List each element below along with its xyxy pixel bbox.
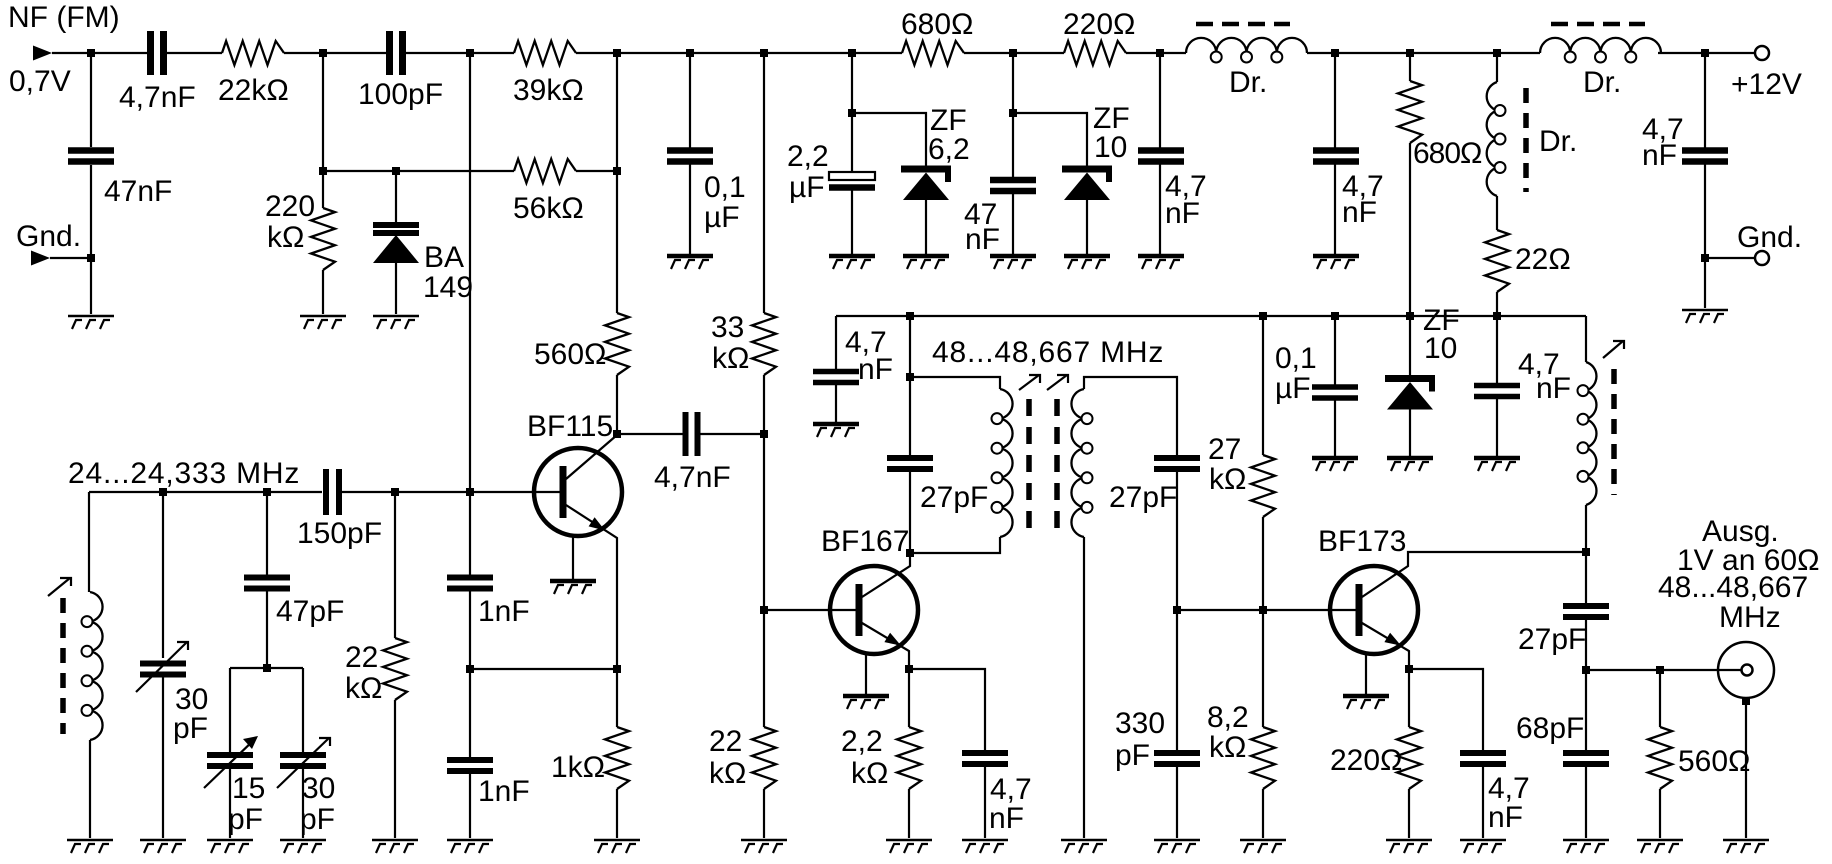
svg-text:149: 149 <box>423 271 473 304</box>
label 220Ohm emitter <box>1330 744 1402 777</box>
label 4,7nF interstage <box>654 461 731 494</box>
node Gnd terminal <box>1701 254 1709 262</box>
zener diode ZF 10 first <box>1062 169 1112 200</box>
wire secondary top link <box>1084 377 1177 458</box>
wire 680R to rail316 <box>1409 143 1411 316</box>
node trimmer bus <box>263 664 271 672</box>
capacitor 27pF primary <box>887 458 933 469</box>
node rail2 right <box>613 167 621 175</box>
label 150pF <box>297 517 382 550</box>
label 48...48,667 MHz <box>932 336 1164 369</box>
ground bypass cap <box>813 424 859 437</box>
capacitor 1nF first <box>447 578 493 589</box>
svg-text:nF: nF <box>858 353 893 386</box>
node BF167 emitter <box>905 665 913 673</box>
svg-text:680Ω: 680Ω <box>1413 137 1482 170</box>
emitter arrow BF115 <box>589 517 605 530</box>
wire 2,2k top <box>908 669 910 727</box>
label 1nF first <box>478 595 530 628</box>
svg-text:kΩ: kΩ <box>712 342 749 375</box>
wire node L to +12V terminal <box>1705 52 1755 54</box>
wire 30pF2 to ground <box>302 766 304 838</box>
label 0,7V <box>9 65 71 98</box>
wire Dr3 top lead <box>1496 53 1498 82</box>
wire 2,2uF upper lead <box>851 113 853 172</box>
node B top rail <box>466 49 474 57</box>
wire 100pF to node B <box>403 52 470 54</box>
svg-text:10: 10 <box>1094 131 1127 164</box>
resistor 56kOhm feedback <box>514 159 576 183</box>
wire 4,7nF(1160) drop <box>1159 53 1161 150</box>
label 33k value <box>711 311 744 344</box>
capacitor 4,7nF at rail <box>1474 386 1520 397</box>
resistor 22Ohm <box>1485 230 1509 292</box>
label 27k value <box>1208 433 1241 466</box>
svg-text:nF: nF <box>1488 801 1523 834</box>
node C top rail <box>613 49 621 57</box>
wire 560R out to ground <box>1659 789 1661 838</box>
wire 47pF to trimmer bus <box>266 589 268 668</box>
label 4,7 value mid <box>1165 170 1207 203</box>
svg-text:10: 10 <box>1424 332 1457 365</box>
label 0,1 right unit <box>1275 372 1311 405</box>
label 560Ohm output <box>1678 745 1750 778</box>
label BF167 <box>821 525 909 558</box>
wire 4,7nF to 22k <box>164 52 222 54</box>
ground 0,1uF <box>667 256 713 269</box>
svg-text:220Ω: 220Ω <box>1330 744 1402 777</box>
wire 8,2k top <box>1262 610 1264 727</box>
wire 22k(395) drop <box>394 492 396 638</box>
resistor 1kOhm emitter <box>605 727 629 789</box>
svg-text:Gnd.: Gnd. <box>16 220 81 253</box>
wire 4,7nF(1335) drop <box>1334 53 1336 150</box>
node base rail BF173 left <box>1173 606 1181 614</box>
resistor 22kOhm oscillator <box>383 638 407 700</box>
label NF (FM) input <box>8 1 120 34</box>
node output line left <box>1582 666 1590 674</box>
svg-text:µF: µF <box>789 171 825 204</box>
ground 68pF <box>1563 840 1609 853</box>
svg-text:Gnd.: Gnd. <box>1737 221 1802 254</box>
capacitor 4,7nF emitter BF173 <box>1460 753 1506 764</box>
wire 39k to node C <box>576 52 617 54</box>
wire 30pF to ground <box>162 675 164 838</box>
svg-text:+12V: +12V <box>1731 68 1802 101</box>
ground 2,2kOhm <box>886 840 932 853</box>
inductor transformer secondary <box>1071 389 1092 537</box>
node subrail left <box>848 109 856 117</box>
terminal Gnd input arrow <box>31 251 50 266</box>
ground 560Ohm output <box>1637 840 1683 853</box>
wire primary bottom link <box>910 537 1000 553</box>
label ZF 10 name <box>1093 102 1130 135</box>
ground BF173 case <box>1343 696 1389 709</box>
svg-text:560Ω: 560Ω <box>534 338 606 371</box>
wire node B to 39k <box>470 52 514 54</box>
wire rail316 left drop <box>835 316 837 371</box>
node D top rail <box>686 49 694 57</box>
node base rail 27k <box>1259 606 1267 614</box>
label 47 unit <box>965 223 1000 256</box>
label BF173 <box>1318 525 1406 558</box>
ground transformer secondary <box>1061 840 1107 853</box>
label Dr. choke 1 <box>1229 66 1267 99</box>
terminal Gnd right <box>1755 251 1769 265</box>
wire 560R to collector node <box>616 375 618 433</box>
ground ZF10b <box>1387 458 1433 471</box>
label 4,7 rail unit <box>1536 372 1571 405</box>
svg-text:22: 22 <box>345 641 378 674</box>
label 0,1 value <box>704 171 746 204</box>
node H top rail <box>1156 49 1164 57</box>
svg-text:2,2: 2,2 <box>841 725 883 758</box>
capacitor 0,1uF right <box>1312 387 1358 398</box>
wire 56k to node rail2 right <box>576 170 617 172</box>
ground 1kOhm <box>594 840 640 853</box>
svg-text:nF: nF <box>989 802 1024 835</box>
wire 2,2k to ground <box>908 789 910 838</box>
svg-text:kΩ: kΩ <box>1209 463 1246 496</box>
svg-text:150pF: 150pF <box>297 517 382 550</box>
label MHz out <box>1719 601 1781 634</box>
wire to BF115 base <box>470 491 563 493</box>
label 680Ohm dropper <box>1413 137 1482 170</box>
wire 30pF drop <box>162 492 164 658</box>
wire Gnd arrow to node <box>50 257 91 259</box>
terminal NF input arrow <box>33 46 52 61</box>
ground ZF6,2 <box>903 256 949 269</box>
wire node to coupling cap <box>91 52 147 54</box>
transistor Q2 BF167 <box>830 566 918 654</box>
wire 1nF to ground <box>469 771 471 838</box>
ground 8,2kOhm <box>1240 840 1286 853</box>
node RF connector shell <box>1742 697 1750 705</box>
wire trimmer bus <box>230 667 303 669</box>
wire to 1nF line <box>395 491 470 493</box>
wire 8,2k to ground <box>1262 789 1264 838</box>
svg-text:220Ω: 220Ω <box>1063 8 1135 41</box>
wire emitter to 4,7nF <box>1409 669 1483 753</box>
svg-text:22: 22 <box>709 725 742 758</box>
wire 22k osc to ground <box>394 700 396 838</box>
ground 22k osc <box>372 840 418 853</box>
varactor diode BA149 <box>373 225 419 263</box>
transformer core dashes right <box>1054 399 1060 531</box>
wire ZF10 to ground <box>1086 198 1088 254</box>
svg-text:pF: pF <box>1115 739 1150 772</box>
wire 0,1uF to ground <box>689 162 691 254</box>
node L +12V rail <box>1701 49 1709 57</box>
svg-text:nF: nF <box>1536 372 1571 405</box>
wire cap to 33k node <box>699 433 764 435</box>
wire 0,1uF right drop <box>1334 316 1336 387</box>
label 30 value <box>175 683 208 716</box>
wire base rail BF173 <box>1177 609 1359 611</box>
wire 0,1uF right to ground <box>1334 398 1336 456</box>
resistor 220kOhm <box>311 208 335 270</box>
ground emitter cap BF173 <box>1460 840 1506 853</box>
wire secondary bottom to ground <box>1083 537 1085 838</box>
label 27pF output <box>1518 623 1586 656</box>
node BF115 collector <box>613 430 621 438</box>
node J top rail <box>1406 49 1414 57</box>
label ZF 10 value <box>1094 131 1127 164</box>
connector RF output <box>1718 642 1774 698</box>
label Gnd. <box>16 220 81 253</box>
svg-text:0,1: 0,1 <box>1275 342 1317 375</box>
label ZF 6,2 value <box>928 133 970 166</box>
wire 27pF output bottom <box>1585 617 1587 670</box>
wire 33k top <box>763 53 765 313</box>
capacitor 47nF input shunt <box>68 151 114 162</box>
capacitor 27pF output <box>1563 606 1609 617</box>
label 27pF primary <box>920 481 988 514</box>
wire 4,7nF(1497) to ground <box>1496 397 1498 456</box>
node rail316 ZF10b <box>1406 312 1414 320</box>
ground +12V rail <box>1682 310 1728 323</box>
label 4,7 unit mid <box>1165 197 1200 230</box>
label 4,7 value right <box>1342 170 1384 203</box>
wire 150pF to 22k tap <box>339 491 395 493</box>
collector lead BF173 <box>1362 552 1586 597</box>
node emitter rail right <box>613 665 621 673</box>
inductor Dr. choke 1 <box>1186 24 1307 63</box>
capacitor 68pF <box>1563 753 1609 764</box>
svg-text:27pF: 27pF <box>1109 481 1177 514</box>
svg-text:0,7V: 0,7V <box>9 65 71 98</box>
resistor 22kOhm base divider <box>752 727 776 789</box>
label 48...48,667 out <box>1658 571 1808 604</box>
label 2,2 unit <box>789 171 825 204</box>
arrow transformer adjust right <box>1047 375 1068 390</box>
svg-text:47nF: 47nF <box>104 175 172 208</box>
wire em bypass to ground <box>984 764 986 838</box>
svg-text:MHz: MHz <box>1719 601 1781 634</box>
node rail316 4,7nF <box>1493 312 1501 320</box>
label 220k unit <box>267 221 304 254</box>
svg-text:kΩ: kΩ <box>851 757 888 790</box>
case stub BF167 <box>865 653 867 694</box>
wire 560R top <box>616 53 618 313</box>
svg-text:33: 33 <box>711 311 744 344</box>
label 4,7 unit 12V <box>1642 139 1677 172</box>
node rail2 BA149 <box>392 167 400 175</box>
terminal +12V <box>1755 46 1769 60</box>
wire node to ground <box>90 258 92 314</box>
svg-text:nF: nF <box>965 223 1000 256</box>
label 24...24,333 MHz <box>68 457 300 490</box>
wire 47pF drop <box>266 492 268 577</box>
wire Dr3 to 22R <box>1496 196 1498 230</box>
capacitor 330pF <box>1154 753 1200 764</box>
wire 220k down <box>322 171 324 208</box>
node output coil tap <box>1582 548 1590 556</box>
node G top rail <box>1009 49 1017 57</box>
wire 22k div to ground <box>763 789 765 838</box>
wire emitter to bypass cap <box>909 669 985 753</box>
node BF167 base tap <box>760 606 768 614</box>
svg-text:nF: nF <box>1165 197 1200 230</box>
label 0,1 right value <box>1275 342 1317 375</box>
wire 0,1uF drop <box>689 53 691 150</box>
node BF173 emitter <box>1405 665 1413 673</box>
wire 22R to rail316 <box>1496 292 1498 316</box>
label 47 value <box>964 198 997 231</box>
wire 2,2uF drop <box>851 53 853 113</box>
ground 220k <box>300 316 346 329</box>
label 330 value <box>1115 707 1165 740</box>
wire 4,7nF(1497) drop <box>1496 316 1498 385</box>
ground 4,7nF rail <box>1474 458 1520 471</box>
capacitor 47nF decoupling <box>990 180 1036 191</box>
wire 27pF upper lead <box>909 377 911 458</box>
label 4,7 bypass value <box>845 326 887 359</box>
ground input <box>68 316 114 329</box>
capacitor 15pF trimmer <box>207 755 253 766</box>
wire collector node to cap <box>617 433 684 435</box>
wire 47nF upper lead <box>1012 113 1014 180</box>
ground BA149 <box>373 316 419 329</box>
node rail316 27k <box>1259 312 1267 320</box>
wire 15pF drop <box>229 668 231 755</box>
ground 30pF <box>140 840 186 853</box>
wire to ground right <box>1704 258 1706 308</box>
wire ZF10b to ground <box>1409 408 1411 456</box>
node 47pF tap <box>263 488 271 496</box>
ground 30pF trimmer <box>280 840 326 853</box>
wire node C to node D <box>617 52 690 54</box>
inductor oscillator coil <box>63 592 103 740</box>
label 4,7 bypass unit <box>858 353 893 386</box>
capacitor 4,7nF emitter bypass <box>962 753 1008 764</box>
node F top rail <box>848 49 856 57</box>
node E top rail <box>760 49 768 57</box>
node osc coil tap <box>159 488 167 496</box>
ground 4,7nF mid <box>1138 256 1184 269</box>
label 4,7 rail value <box>1518 348 1560 381</box>
ground 330pF <box>1154 840 1200 853</box>
wire em3 cap to ground <box>1482 764 1484 838</box>
node BF167 collector <box>906 549 914 557</box>
collector lead BF115 <box>566 435 617 479</box>
svg-text:560Ω: 560Ω <box>1678 745 1750 778</box>
wire 4,7nF(1335) to ground <box>1334 162 1336 254</box>
label 30b unit <box>300 803 335 836</box>
svg-text:68pF: 68pF <box>1516 712 1584 745</box>
resistor 2,2kOhm emitter <box>897 727 921 789</box>
capacitor 4,7nF interstage <box>686 412 698 456</box>
emitter arrow BF167 <box>884 633 901 646</box>
svg-text:pF: pF <box>300 803 335 836</box>
wire ZF10b top <box>1409 316 1411 375</box>
label 27pF secondary <box>1109 481 1177 514</box>
capacitor 100pF <box>390 31 403 75</box>
label 2,2 value <box>787 140 829 173</box>
wire node A to 100pF <box>323 52 389 54</box>
wire rail316 <box>836 315 1586 317</box>
label 2,2k value <box>841 725 883 758</box>
emitter lead BF173 <box>1362 623 1409 669</box>
capacitor 4,7nF input coupling <box>151 31 164 75</box>
ground oscillator coil <box>67 840 113 853</box>
wire node G to 220R <box>1013 52 1064 54</box>
label 8,2k value <box>1207 701 1249 734</box>
label ZF10b name <box>1423 304 1460 337</box>
zener diode ZF 10 second <box>1385 379 1435 410</box>
svg-text:kΩ: kΩ <box>345 672 382 705</box>
arrow 30pF adjust <box>136 642 188 692</box>
svg-text:BF167: BF167 <box>821 525 909 558</box>
wire osc rail seg3 <box>267 491 322 493</box>
node subrail right <box>1009 109 1017 117</box>
label 680Ohm <box>901 8 973 41</box>
wire subrail to zener ZF10 <box>1013 113 1087 166</box>
svg-text:nF: nF <box>1642 139 1677 172</box>
ground 2,2uF <box>829 256 875 269</box>
wire 47nF to ground <box>1012 191 1014 254</box>
label 4,7nF <box>119 81 196 114</box>
svg-text:kΩ: kΩ <box>267 221 304 254</box>
wire node K to choke Dr2 <box>1497 52 1540 54</box>
label 47pF <box>276 595 344 628</box>
capacitor 2,2uF electrolytic <box>829 172 875 188</box>
label 22kOhm <box>218 74 289 107</box>
svg-text:22kΩ: 22kΩ <box>218 74 289 107</box>
wire 2,2uF to ground <box>851 188 853 254</box>
wire 30pF2 drop <box>302 668 304 755</box>
label ZF10b value <box>1424 332 1457 365</box>
wire 22k to node A <box>284 52 323 54</box>
wire ZF6,2 to ground <box>925 198 927 254</box>
wire input node down to 47nF <box>90 53 92 147</box>
wire to Gnd terminal <box>1705 257 1755 259</box>
svg-text:56kΩ: 56kΩ <box>513 192 584 225</box>
wire rail316 to output coil <box>1585 316 1587 362</box>
node emitter rail left <box>466 665 474 673</box>
wire 220R to node H <box>1126 52 1160 54</box>
wire 1nF chain top <box>469 53 471 577</box>
label 4,7 em3 unit <box>1488 801 1523 834</box>
transistor Q3 BF173 <box>1330 566 1418 654</box>
label 4,7 value 12V <box>1642 113 1684 146</box>
capacitor 4,7nF at +12V <box>1682 151 1728 162</box>
node A top rail <box>319 49 327 57</box>
svg-text:220: 220 <box>265 190 315 223</box>
ground 1nF chain <box>447 840 493 853</box>
ground emitter bypass <box>962 840 1008 853</box>
capacitor 30pF trimmer <box>280 755 326 766</box>
wire output line <box>1586 669 1741 671</box>
ground 220Ohm <box>1386 840 1432 853</box>
svg-text:Dr.: Dr. <box>1229 66 1267 99</box>
wire node F to 680R <box>852 52 902 54</box>
case stub BF115 <box>572 536 574 579</box>
label 30b value <box>302 772 335 805</box>
wire BA149 to ground <box>395 263 397 314</box>
svg-text:µF: µF <box>1275 372 1311 405</box>
wire rail2 left segment <box>323 170 514 172</box>
svg-text:24...24,333 MHz: 24...24,333 MHz <box>68 457 300 490</box>
wire 220k to ground <box>322 270 324 314</box>
wire 4,7nF(1160) to ground <box>1159 162 1161 254</box>
wire node H to choke Dr1 <box>1160 52 1186 54</box>
wire 27pF sec lower <box>1176 469 1178 610</box>
label 149 <box>423 271 473 304</box>
wire Dr1 to node I <box>1307 52 1335 54</box>
arrow output coil adjust <box>1603 341 1624 358</box>
inductor Dr. choke 2 <box>1540 24 1661 63</box>
